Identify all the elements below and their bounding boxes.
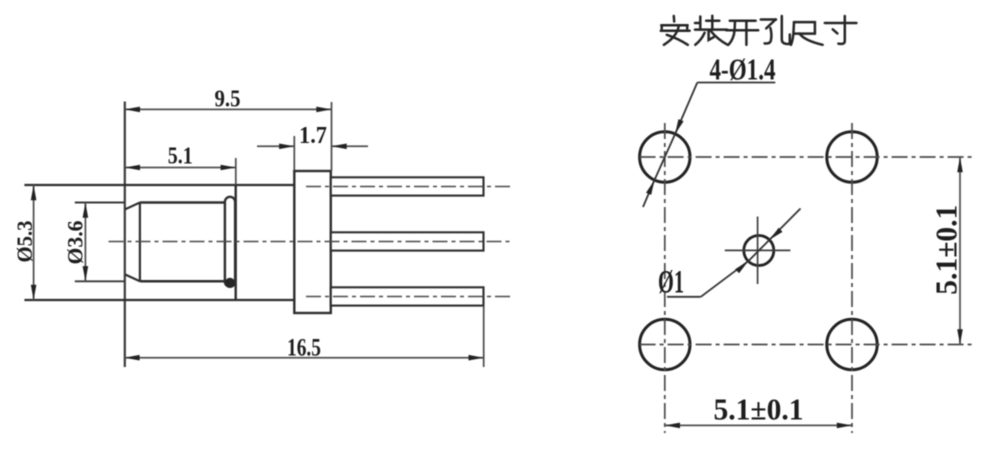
svg-text:16.5: 16.5	[287, 335, 321, 362]
arrow Ø5.3 top	[31, 185, 37, 200]
wire sleeve top outline with ext	[75, 202, 125, 204]
gasket capsule	[225, 197, 235, 287]
svg-text:Ø3.6: Ø3.6	[63, 221, 88, 265]
arrow Ø1 upper (into circle)	[770, 228, 783, 240]
leader 4-Ø1.4 diagonal through circle	[655, 134, 676, 180]
wire chamfer top diagonal	[125, 203, 140, 210]
ext line 16.5 right	[483, 306, 485, 367]
ext line 9.5 right	[331, 102, 333, 171]
center hole circle Ø1	[744, 236, 774, 266]
arrow Ø3.6 bottom	[83, 266, 89, 281]
svg-text:Ø5.3: Ø5.3	[12, 221, 37, 263]
svg-text:9.5: 9.5	[215, 87, 241, 113]
leader 4-Ø1.4 lower tail	[643, 180, 655, 207]
arrow 9.5 right	[316, 107, 331, 113]
ARROWHEADS RIGHT VIEW	[646, 119, 963, 428]
arrow 4-Ø1.4 upper (into circle)	[675, 119, 684, 134]
wire sleeve bottom outline with ext	[75, 280, 125, 282]
wire mating face vertical line	[124, 102, 126, 368]
ext line 1.7 left	[293, 136, 295, 170]
arrow bottom dim left	[665, 423, 680, 429]
arrow Ø1 lower (into circle)	[735, 261, 748, 273]
LEFT VIEW GROUP	[24, 102, 513, 368]
svg-text:1.7: 1.7	[299, 123, 327, 149]
arrow 5.1 right	[221, 165, 236, 171]
centerline column right	[851, 123, 853, 433]
leader Ø1 horizontal	[667, 296, 701, 298]
arrow 16.5 right	[469, 355, 484, 361]
leader 4-Ø1.4 upper diagonal	[675, 83, 697, 135]
hole circle bottom-right	[827, 319, 877, 369]
hole circle top-right	[827, 132, 877, 182]
DIMENSIONS LEFT VIEW	[34, 102, 484, 367]
char 孔	[761, 16, 790, 44]
arrow 4-Ø1.4 lower (into circle)	[646, 180, 655, 195]
wire body bottom outline Ø5.3	[24, 299, 294, 301]
svg-text:Ø1: Ø1	[658, 265, 684, 301]
dim 1.7 right tail	[332, 145, 369, 147]
leader Ø1 upper tail	[770, 209, 801, 240]
arrow right dim top	[957, 157, 963, 172]
dim line bottom 5.1±0.1	[665, 424, 852, 426]
pin 2 middle	[331, 232, 484, 250]
dim line Ø5.3 vertical	[33, 185, 35, 300]
char 尺	[791, 22, 823, 45]
centerline row bottom	[640, 344, 975, 346]
arrow 5.1 left	[125, 165, 140, 171]
leader 4-Ø1.4 underline	[697, 82, 775, 84]
char 安	[661, 16, 690, 45]
gasket bottom dark ring	[225, 278, 235, 288]
pin 1 top	[331, 177, 484, 195]
flange rectangle	[294, 171, 331, 313]
dim line right 5.1±0.1 vertical	[959, 157, 961, 345]
leader Ø1 lower diagonal	[701, 261, 748, 297]
arrow 9.5 left	[125, 107, 140, 113]
dim line Ø3.6 vertical	[84, 203, 86, 282]
TITLE 安装开孔尺寸 hand drawn strokes	[661, 16, 857, 45]
ext line 5.1 right	[235, 158, 237, 185]
crosshair vertical of center hole	[757, 217, 759, 285]
dim line 16.5	[124, 357, 483, 359]
RIGHT VIEW	[640, 83, 975, 434]
char 装	[695, 16, 728, 45]
wire rear body left face vertical	[234, 185, 236, 300]
pin 3 bottom	[331, 287, 484, 305]
centerline main axis	[109, 241, 513, 243]
TEXT LABELS RIGHT VIEW	[658, 52, 964, 427]
arrow 1.7 right (points left)	[332, 144, 347, 150]
arrow 16.5 left	[124, 355, 139, 361]
svg-text:5.1±0.1: 5.1±0.1	[929, 205, 964, 295]
char 寸	[825, 16, 857, 44]
dim line 9.5	[125, 108, 332, 110]
crosshair horizontal of center hole	[725, 249, 791, 251]
centerline row top	[640, 156, 975, 158]
dim line 5.1	[125, 167, 236, 169]
wire body top outline Ø5.3	[24, 184, 294, 186]
leader Ø1 diagonal through circle	[748, 240, 769, 261]
arrow 1.7 left (points right)	[279, 144, 294, 150]
arrow right dim bottom	[957, 329, 963, 344]
char 开	[726, 21, 758, 45]
wire chamfer bottom diagonal	[125, 275, 140, 282]
arrow bottom dim right	[837, 423, 852, 429]
svg-text:5.1±0.1: 5.1±0.1	[714, 392, 804, 427]
svg-text:5.1: 5.1	[168, 144, 193, 170]
arrow Ø3.6 top	[83, 203, 89, 218]
hole circle bottom-left	[640, 319, 690, 369]
centerline pin1	[306, 186, 513, 188]
centerline pin3	[306, 296, 513, 298]
ARROWHEADS LEFT VIEW	[31, 107, 484, 361]
wire chamfer back edge vertical	[139, 203, 141, 282]
dim 1.7 left tail	[257, 145, 294, 147]
hole circle top-left	[640, 132, 690, 182]
centerline column left	[664, 123, 666, 433]
svg-text:4-Ø1.4: 4-Ø1.4	[710, 52, 776, 87]
arrow Ø5.3 bottom	[31, 285, 37, 300]
TEXT LABELS LEFT VIEW	[12, 87, 327, 362]
